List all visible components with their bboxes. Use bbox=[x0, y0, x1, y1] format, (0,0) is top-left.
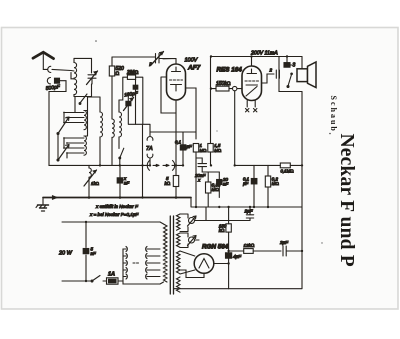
svg-text:x entfällt in Neckar F: x entfällt in Neckar F bbox=[95, 204, 139, 209]
resistor 150k grid bbox=[211, 86, 233, 91]
wire mid-left rail bbox=[49, 125, 183, 165]
antenna jack A bbox=[48, 66, 51, 72]
switch tone bbox=[288, 75, 292, 87]
capacitor 0,1uF AF7 black bbox=[150, 132, 196, 165]
bottom return wire bbox=[174, 251, 303, 289]
antenna coil L1 lower winding bbox=[74, 79, 77, 97]
capacitor 4uF black bbox=[226, 253, 232, 258]
jack 7A top arc bbox=[147, 137, 150, 141]
AF7 grid bbox=[170, 79, 183, 81]
mains top wire bbox=[62, 221, 160, 223]
svg-text:MΩ: MΩ bbox=[214, 148, 221, 153]
tube U2 RES164 envelope bbox=[242, 66, 262, 101]
wire mid right rail bbox=[235, 164, 281, 166]
resistor 0,35M bbox=[202, 172, 219, 207]
resistor 520 ohm bbox=[109, 57, 114, 119]
AF7 top cap stub bbox=[163, 59, 176, 65]
RES164 cathode diagonal bbox=[246, 87, 257, 97]
coil L3 tapped bbox=[84, 136, 86, 155]
earth jack E bbox=[47, 78, 50, 84]
speck 2 bbox=[321, 242, 322, 243]
switch mains bbox=[92, 276, 100, 282]
mains bottom wire bbox=[62, 280, 90, 282]
svg-text:20 W: 20 W bbox=[58, 251, 73, 257]
wire filter line bbox=[229, 250, 244, 252]
mains vertical bbox=[85, 222, 87, 281]
AF7 side wires bbox=[161, 77, 196, 139]
wire coil tops bbox=[88, 96, 101, 98]
svg-text:AF7: AF7 bbox=[187, 65, 201, 72]
wire coil top frame bbox=[74, 58, 92, 73]
taps L3 bbox=[64, 138, 84, 153]
resistor 1,5M bbox=[208, 57, 213, 166]
svg-text:2µF: 2µF bbox=[244, 209, 254, 214]
capacitor 500pF bbox=[49, 78, 66, 125]
capacitor C out plates bbox=[276, 70, 279, 78]
RGN anode out bbox=[214, 263, 229, 265]
capacitor tone black bbox=[284, 57, 293, 68]
svg-text:p: p bbox=[149, 61, 153, 66]
secondary winding A bbox=[177, 214, 181, 230]
ground bbox=[36, 198, 49, 212]
svg-text:x = bei Neckar P=0,1µF: x = bei Neckar P=0,1µF bbox=[89, 212, 140, 217]
wire coil mid taps bbox=[71, 71, 74, 79]
switch S4 below L6 bbox=[120, 148, 124, 158]
svg-text:2µF: 2µF bbox=[279, 240, 289, 245]
svg-text:nF: nF bbox=[91, 251, 96, 256]
wire osc section bbox=[128, 93, 150, 198]
svg-text:3: 3 bbox=[293, 63, 296, 69]
resistor 12k bbox=[244, 249, 281, 254]
jack 7A bottom arc bbox=[147, 154, 150, 158]
svg-text:µF: µF bbox=[187, 144, 193, 149]
svg-text:µF: µF bbox=[243, 181, 249, 186]
svg-text:0,1MΩ: 0,1MΩ bbox=[281, 169, 294, 174]
svg-text:nF: nF bbox=[223, 182, 228, 187]
antenna bbox=[33, 52, 54, 69]
fuse 1A bbox=[103, 278, 123, 284]
volume pot bbox=[84, 168, 97, 186]
capacitor 20nF black bbox=[217, 172, 222, 198]
node grid circle bbox=[233, 86, 237, 90]
speck 4 bbox=[329, 133, 331, 135]
RGN filament bbox=[199, 259, 209, 269]
AF7 pin down bbox=[175, 100, 177, 176]
svg-text:1kΩ: 1kΩ bbox=[91, 181, 99, 186]
svg-text:4µF: 4µF bbox=[233, 254, 242, 259]
capacitor 0,1uF black bbox=[251, 165, 257, 207]
capacitor 20nF plates bbox=[196, 158, 207, 172]
selector link bbox=[133, 262, 140, 264]
svg-text:2: 2 bbox=[269, 68, 273, 73]
wire speaker down bbox=[301, 57, 303, 252]
antenna coil L1 upper winding bbox=[74, 58, 77, 78]
tube U1 AF7 envelope bbox=[167, 64, 186, 100]
heater selector 2 bbox=[180, 233, 196, 248]
oscillator coil L4 bbox=[100, 97, 103, 165]
wire L2-L3 left joins bbox=[64, 97, 88, 158]
svg-text:MΩ: MΩ bbox=[200, 148, 207, 153]
svg-text:200V 11mA: 200V 11mA bbox=[250, 51, 278, 57]
switch arm S3 bbox=[58, 145, 69, 161]
coil L2 tapped bbox=[84, 111, 86, 130]
svg-text:MΩ: MΩ bbox=[212, 187, 219, 192]
variable capacitor C1 tuning bbox=[87, 71, 98, 85]
secondary winding C HT bbox=[177, 251, 181, 274]
svg-text:20nF: 20nF bbox=[194, 173, 207, 178]
primary winding zigzag bbox=[164, 224, 168, 282]
pickup arrows bbox=[147, 161, 174, 171]
RES164 anode bar bbox=[247, 69, 257, 74]
tube U3 RGN564 bbox=[194, 254, 214, 274]
voltage selector left arcs bbox=[123, 247, 127, 282]
coil L6 bbox=[119, 100, 122, 149]
svg-text:100V: 100V bbox=[185, 58, 199, 64]
wire 200V line bbox=[211, 56, 303, 58]
svg-text:MΩ: MΩ bbox=[272, 181, 279, 186]
capacitor 2uF out bbox=[283, 246, 302, 256]
resistor 5k cathode bbox=[173, 176, 178, 198]
svg-text:Schaub: Schaub bbox=[329, 96, 338, 133]
secondary winding B bbox=[177, 233, 181, 247]
capacitor 5nF black bbox=[89, 165, 123, 197]
voltage selector right arcs bbox=[146, 247, 160, 280]
svg-text:RGN 564: RGN 564 bbox=[202, 244, 229, 251]
speaker LS bbox=[297, 62, 316, 88]
svg-text:0,1: 0,1 bbox=[175, 140, 182, 145]
AF7 anode bar bbox=[172, 67, 181, 72]
RGN connections bbox=[180, 251, 195, 274]
RES164 pins with x bbox=[246, 101, 249, 112]
resistor 0,2M bbox=[265, 165, 270, 207]
output box bbox=[279, 57, 302, 92]
RES164 grid bbox=[245, 80, 259, 82]
speck 3 bbox=[216, 130, 217, 131]
chassis bus left bbox=[43, 197, 191, 199]
variable capacitor C2 grid bbox=[151, 52, 177, 66]
wire RES164 anode out bbox=[262, 74, 275, 83]
bus arrow bbox=[53, 196, 58, 199]
svg-text:1A: 1A bbox=[108, 272, 115, 278]
wire 7A stubs bbox=[149, 158, 151, 165]
switch arm S2 bbox=[58, 117, 69, 134]
svg-text:Ω: Ω bbox=[116, 71, 120, 77]
transformer core bbox=[170, 216, 173, 294]
heater wires right bbox=[195, 207, 251, 240]
svg-text:RES 164: RES 164 bbox=[217, 67, 243, 74]
AF7 cathode bbox=[171, 85, 182, 92]
secondary winding D bbox=[177, 277, 181, 292]
svg-text:kΩ: kΩ bbox=[165, 181, 171, 186]
svg-text:2MΩ: 2MΩ bbox=[126, 70, 138, 76]
switch S1 in coil box bbox=[80, 94, 87, 103]
svg-text:Neckar F und P: Neckar F und P bbox=[336, 134, 357, 267]
svg-text:12kΩ: 12kΩ bbox=[244, 243, 255, 248]
wire coil bottom frame bbox=[74, 84, 92, 113]
wire top RF line bbox=[112, 56, 154, 58]
trimmer capacitor C3 bbox=[124, 98, 134, 111]
svg-text:7A: 7A bbox=[146, 146, 153, 152]
heater selector 1 bbox=[180, 214, 196, 232]
resistor 1M bbox=[193, 144, 198, 208]
capacitor 2uF bus bbox=[246, 207, 253, 221]
svg-text:kΩ: kΩ bbox=[219, 228, 225, 233]
taps L2 bbox=[64, 113, 84, 123]
primary top connect bbox=[123, 222, 164, 284]
capacitor 100pF bbox=[133, 79, 138, 124]
wire antenna to coil L1 bbox=[52, 69, 71, 70]
svg-text:150kΩ: 150kΩ bbox=[216, 81, 231, 87]
svg-text:nF: nF bbox=[124, 181, 129, 186]
speck 1 bbox=[95, 40, 97, 42]
oscillator coil L5 bbox=[112, 119, 114, 165]
resistor 0,1M horizontal bbox=[280, 163, 301, 168]
resistor 150k bleeder bbox=[226, 207, 231, 289]
capacitor mains black bbox=[83, 249, 89, 254]
resistor 2M bbox=[119, 75, 143, 124]
RES164 top stub bbox=[251, 57, 253, 67]
